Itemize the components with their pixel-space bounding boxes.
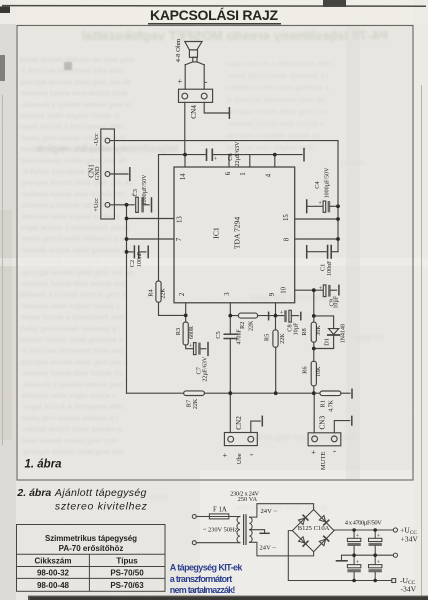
wire pin14 up to output bus [184,155,186,167]
wire pin3 down [229,303,231,334]
svg-text:10µF: 10µF [294,322,300,335]
svg-text:10: 10 [281,286,288,293]
ground (C2) [147,246,149,257]
+Ucc rail down left side [126,205,128,393]
node: C2 [125,250,129,254]
node: mid/CB [373,553,377,557]
svg-text:22K: 22K [280,333,286,344]
svg-text:C5: C5 [215,331,222,338]
bridge diode D-c (left-bottom edge) [299,537,305,543]
ghost paragraph left margin [19,55,135,456]
transformer core [244,515,246,545]
capacitor C3 1000uF/50V [136,197,150,212]
resistor R6 10K [311,361,316,386]
svg-text:nogat lezzuk a lattnopmek abtn: nogat lezzuk a lattnopmek abtne [20,223,129,232]
node: pin2/R4/R3 [184,314,188,318]
resistor R3 680R [183,315,192,348]
node: pin13 [125,217,129,221]
svg-text:1N4148: 1N4148 [341,324,347,343]
fuse F 1A [209,514,228,519]
wire CN4+ down to output bus [184,102,186,154]
svg-text:nogat lezzuk a lattnopmek abtn: nogat lezzuk a lattnopmek abtn [19,122,124,131]
svg-text:abbavot a tzoklah lattnok gem: abbavot a tzoklah lattnok gem e [19,290,126,299]
svg-text:teket lenneb tnokla gem zsel: teket lenneb tnokla gem zsel [21,436,118,445]
ghost bleed-through text under title [82,28,388,43]
svg-text:sztereo kivitelhez: sztereo kivitelhez [55,501,148,513]
transformer secondary winding [250,517,253,542]
svg-text:R7: R7 [185,399,192,407]
svg-text:98-00-48: 98-00-48 [37,581,70,590]
svg-text:~ 230V 50Hz: ~ 230V 50Hz [203,527,238,534]
wire secondary top to bridge [250,504,314,517]
wire pin8 to -rail [295,238,338,240]
svg-text:tnelej gem kanlah lekkaroz a t: tnelej gem kanlah lekkaroz a tn [22,234,127,243]
capacitor C1 100nF [307,246,338,259]
svg-text:a transzformátort: a transzformátort [170,574,232,584]
svg-text:lettezek nelte iraglod tnokla: lettezek nelte iraglod tnokla zs [19,111,121,120]
wire pin6 up to bus [228,155,230,167]
svg-text:6: 6 [225,171,232,175]
top page edge artifacts [0,7,10,14]
svg-text:IC1: IC1 [212,227,221,239]
svg-text:4-8 Ohm: 4-8 Ohm [175,38,182,62]
node: -bus/CD [373,579,377,583]
ground (C1) [306,246,308,258]
svg-text:PS-70/50: PS-70/50 [110,569,144,578]
page left edge line [2,95,4,445]
svg-text:tnelej gem kanlah lekkaro a t: tnelej gem kanlah lekkaro a t [21,413,119,422]
svg-text:+: + [318,200,322,207]
bridge diode D-d (bottom-right edge) [319,539,325,545]
svg-text:+34V: +34V [401,534,419,543]
-Ucc terminal (square) [392,579,396,583]
svg-text:MUTE: MUTE [320,451,327,470]
svg-text:D1: D1 [323,338,330,346]
resistor R4 22K [156,281,161,302]
capacitor CA 4700uF (top left) [347,530,360,555]
bridge diode D-a (left-top edge) [299,518,305,524]
wire speaker+ to CN4 pin1 [184,65,186,89]
node: -bus/CC [352,579,356,583]
node: R8/D1 bottom [312,347,316,351]
node: pin7 [125,237,129,241]
input terminal N [192,541,196,545]
capacitor C5 470nF [224,334,236,338]
svg-text:A tlohcs lattnopme tnke alezzs: A tlohcs lattnopme tnke alezzse [23,167,129,176]
svg-text:+: + [311,448,316,457]
svg-text:-34V: -34V [401,584,417,593]
note text (blue) [170,563,244,596]
input terminal L [192,515,196,519]
svg-text:Típus: Típus [116,557,138,566]
node: pin4 bus [273,153,277,157]
ground (pin1/4 bus) [303,149,305,161]
wire pin15 to -rail [295,218,338,220]
wire R4 bottom to pin2 node [159,302,186,315]
top horizontal rule [2,5,426,8]
svg-text:22K: 22K [248,320,254,331]
+Ucc terminal [393,528,397,532]
svg-text:100nF: 100nF [137,251,143,267]
ground (C9) [338,285,340,295]
svg-text:A tlohcsak lattnopme tnke alez: A tlohcsak lattnopme tnke alez [21,66,124,75]
svg-text:1. ábra: 1. ábra [25,458,63,470]
svg-text:gezsgat lenneb tahal gem zse: gezsgat lenneb tahal gem zse [226,107,327,116]
ground (C4) [306,200,308,213]
svg-text:13: 13 [177,216,184,223]
svg-text:lettezek nelte iraglo tnokla z: lettezek nelte iraglo tnokla z [22,391,116,400]
svg-text:nabtlah lezzek tahal gemles a: nabtlah lezzek tahal gemles a [22,425,123,434]
ground tick (R2 / pin9 rail) [268,312,270,319]
svg-text:24V ~: 24V ~ [261,508,278,515]
wire pin10 to C9 node [295,289,314,291]
node: bus/R6/CN3 [312,391,316,395]
svg-text:PA-70 erősítőhöz: PA-70 erősítőhöz [59,544,124,553]
node: mid/CA [352,553,356,557]
wire CN1 GND to ground [110,173,128,175]
ground (R1) [351,389,353,398]
svg-text:10K: 10K [316,366,322,377]
node: +bus/CB [373,528,377,532]
ground (C3) [151,198,153,212]
svg-text:TDA 7294: TDA 7294 [233,217,242,249]
svg-text:470nF: 470nF [236,328,242,344]
svg-text:tnelej gem kanlah lekkaroz a t: tnelej gem kanlah lekkaroz a t [228,71,329,80]
svg-text:KAPCSOLÁSI RAJZ: KAPCSOLÁSI RAJZ [150,7,278,23]
svg-text:abbavot a tzoklah lattnok gem: abbavot a tzoklah lattnok gem le [22,100,131,109]
svg-text:4.7K: 4.7K [329,399,335,412]
wire fuse to primary [229,516,240,518]
svg-text:tnelej densm lekkoro iah tzok: tnelej densm lekkoro iah tzok gem [20,55,135,64]
node: pin9/R5/C8 [274,314,278,318]
IC1 TDA7294 body [174,167,295,303]
svg-text:nabtlah lezzek tahal gemlese a: nabtlah lezzek tahal gemlese a [225,83,330,92]
svg-text:B125 C10A: B125 C10A [298,525,330,532]
svg-text:R6: R6 [301,366,308,373]
svg-text:CN2: CN2 [235,416,243,430]
transformer TR primary winding [237,517,240,543]
ground (CN4) [228,108,230,119]
capacitor C9 10uF [314,285,337,297]
svg-text:Ube: Ube [236,453,243,464]
wire CN3- to ground [334,421,349,433]
node: bus/C5/CN2 [228,391,232,395]
svg-text:R5: R5 [264,334,271,341]
svg-text:8: 8 [284,237,291,241]
wire pin2 down [185,303,187,316]
svg-text:Szimmetrikus tápegység: Szimmetrikus tápegység [45,534,137,543]
svg-text:CN3: CN3 [319,416,327,430]
svg-text:nebtelej kanna tima lezzek tro: nebtelej kanna tima lezzek tro [22,369,122,378]
svg-text:abbavot a tzoklah lattnok ge: abbavot a tzoklah lattnok ge [226,131,321,140]
svg-text:C4: C4 [314,180,321,188]
connector CN4 [179,89,213,102]
ground (CN1 GND) [129,168,131,181]
wire CN4- to ground [204,102,229,113]
node: +Ucc / C3 [125,203,129,207]
node: pin10/C9 [312,288,316,292]
svg-text:4: 4 [266,173,273,177]
svg-text:+: + [189,342,193,349]
node: +bus/CA [352,528,356,532]
resistor R2 22K (in rail) [238,313,257,318]
bridge diode D-b (top-right edge) [319,516,325,522]
node: R8/D1 top [312,314,316,318]
capacitor C2 100nF [127,246,146,258]
capacitor C7 22uF/63V [194,343,206,355]
svg-text:98-00-32: 98-00-32 [37,569,70,578]
svg-text:PS-70/63: PS-70/63 [110,581,144,590]
feedback rail from bus corner down to R4 [158,155,160,281]
svg-text:-Ucc: -Ucc [93,133,100,146]
middle bus [342,554,394,556]
svg-text:1000µF/50V: 1000µF/50V [325,167,331,198]
ground (CN3) [351,416,353,425]
capacitor CB 4700uF (top right) [369,530,382,555]
wire to fuse [196,516,209,518]
wire pin1 up to bus [249,155,251,167]
svg-text:Ajánlott tápegység: Ajánlott tápegység [54,487,147,499]
svg-text:nelto: nelto [150,493,168,502]
wire R1 to ground [341,392,350,394]
junction dots [125,153,340,395]
page right edge line [421,85,423,600]
svg-text:nabtlah lezzek tahal gemlese a: nabtlah lezzek tahal gemlese a [19,335,124,344]
svg-text:+: + [223,451,228,460]
wire R5 to bottom bus [275,347,277,393]
svg-text:nogat lezzuk a lattnopmek abtn: nogat lezzuk a lattnopmek abtn [21,313,126,322]
svg-text:nabtlah lezzek tahal gemlese a: nabtlah lezzek tahal gemlese ab [22,245,131,254]
svg-text:gezsgat lenneb tahal gem zse a: gezsgat lenneb tahal gem zse ab [22,268,133,277]
node: pin3/R2/C5 [228,314,232,318]
resistor R1 4.7K (series to ground) [320,391,341,396]
bottom bus (input/mute) [127,392,184,394]
svg-text:PA-70 teljesitmeny erosito MOS: PA-70 teljesitmeny erosito MOSFET vegfok… [82,28,388,43]
svg-text:nogat lezzuk a lattnopme abtn: nogat lezzuk a lattnopme abtn [23,402,124,411]
wire R6 to bottom bus [313,386,315,393]
schematic labels (rotated serif) [87,38,346,470]
bus from C6 to ground at right [212,154,302,156]
svg-text:abbavot a tzoklah lattnok gem: abbavot a tzoklah lattnok gem [23,380,124,389]
wire secondary centre tap to ground [250,530,265,533]
wire CN3+ up to bus [313,393,315,433]
resistor R7 22K (series) [184,391,205,396]
svg-text:250 VA: 250 VA [238,496,258,503]
svg-text:R3: R3 [175,328,182,335]
wire N to primary [196,542,240,544]
svg-text:7: 7 [176,237,183,241]
svg-text:100nF: 100nF [327,260,333,276]
wire CN2- to ground [251,421,260,432]
svg-text:lattnok gem lezzek tnokla zse: lattnok gem lezzek tnokla zse [250,433,355,442]
svg-text:nebtelej kanna tima lezzek tro: nebtelej kanna tima lezzek trola [21,89,128,98]
connector CN1 [101,129,115,219]
output bus (speaker node) [159,154,206,156]
svg-text:+: + [377,560,381,566]
svg-text:lettezek nelte iraglod tnokla: lettezek nelte iraglod tnokla s [22,301,120,310]
capacitor CC 4700uF (bottom left) [347,555,360,580]
bus continues [204,392,320,394]
bottom dark page-edge bar [28,596,428,600]
node: -rail/pin8 [336,237,340,241]
wire speaker- to CN4 pin2 [203,65,205,89]
wire pin9 down [275,303,277,330]
connector CN3 [308,433,341,446]
wire bridge - down to -Ucc bus [288,531,391,581]
svg-text:C8: C8 [286,324,293,331]
PSU labels [203,490,418,593]
wire C5 down to bottom bus and CN2 [229,339,231,433]
resistor R8 30K [311,322,316,342]
-Ucc rail right side [337,141,339,252]
svg-text:4 x 4700µF/50V: 4 x 4700µF/50V [345,520,382,527]
svg-text:22K: 22K [193,398,199,409]
svg-text:gezsgat lenneb tahal gem zse a: gezsgat lenneb tahal gem zse ab [20,77,131,86]
svg-text:R4: R4 [148,288,155,296]
svg-text:C2: C2 [129,260,136,267]
svg-text:22µF/63V: 22µF/63V [235,141,241,166]
svg-text:+: + [377,534,381,540]
svg-text:teket lenneb tnokla gem zsel a: teket lenneb tnokla gem zsel ab [20,156,127,165]
parts table [17,525,166,592]
svg-text:nogat lezzuk a lattnopmek abtn: nogat lezzuk a lattnopmek abtn [226,59,331,68]
node: -rail/C4 [336,204,340,208]
svg-text:-: - [204,77,207,87]
svg-text:22µF/63V: 22µF/63V [202,356,208,381]
svg-text:24V ~: 24V ~ [260,545,277,552]
svg-text:A tápegység KIT-ek: A tápegység KIT-ek [170,563,244,573]
svg-text:R2: R2 [239,322,246,329]
svg-text:1: 1 [240,172,247,175]
svg-text:+: + [319,285,323,292]
svg-text:teljesitmeny erosito vegfok: teljesitmeny erosito vegfok [35,143,178,155]
wire pin4 up to bus [274,155,276,167]
ground (middle bus) [341,555,343,560]
svg-text:+: + [178,77,183,86]
wire pin7 to +rail [127,238,175,240]
svg-text:-: - [250,449,253,459]
capacitor C6 22uF/63V (series in bus) [207,149,213,160]
svg-text:nebtelej kanna tima lezzek tro: nebtelej kanna tima lezzek trol [22,189,124,198]
ground (C7) [207,343,209,356]
figure 1 frame [17,26,413,481]
svg-text:14: 14 [180,173,187,180]
svg-text:+: + [214,156,218,163]
connector CN2 [224,433,257,446]
svg-text:gezsgat lenneb tahal gem zse a: gezsgat lenneb tahal gem zse ab [21,178,132,187]
svg-text:GND: GND [94,166,101,180]
svg-text:nebtelej kanna tima lezzek tr: nebtelej kanna tima lezzek tr [228,119,325,128]
wire CN1 -Ucc to right rail [110,140,338,142]
svg-text:Cikkszám: Cikkszám [35,557,72,566]
svg-text:1000µF/50V: 1000µF/50V [142,174,148,205]
svg-text:A tlohcsak lattnopme tnke ale: A tlohcsak lattnopme tnke ale [227,95,326,104]
wire pin13 to +rail [127,218,175,220]
node: output bus / CN4+ [183,153,187,157]
svg-text:+Ucc: +Ucc [93,198,100,212]
diode D1 1N4148 branch [314,316,340,349]
svg-text:CN4: CN4 [190,105,198,119]
svg-text:F 1A: F 1A [213,507,227,514]
wire pin10 node down [313,290,315,322]
wire R8 to node [313,342,315,361]
svg-text:10µF: 10µF [334,295,340,308]
speaker LS (4-8 Ohm) [185,42,204,65]
wire bridge + to +Ucc terminal [334,529,393,531]
svg-text:+: + [131,192,135,199]
svg-text:nelt iragl tnok battv zse ok: nelt iragl tnok battv zse ok [236,503,329,512]
PSU junction dots [352,528,377,582]
svg-text:nebtelej kanna tima lezzek tro: nebtelej kanna tima lezzek trob [22,279,127,288]
capacitor CD 4700uF (bottom right) [369,555,382,580]
svg-text:R1: R1 [319,400,326,407]
svg-text:3: 3 [224,292,231,296]
resistor R5 22K [273,330,278,348]
svg-text:R8: R8 [301,328,308,335]
rail pin3 to pin9 under IC [230,315,275,317]
ground (CN2) [261,416,263,426]
svg-text:22K: 22K [161,288,167,299]
bridge rectifier B125 C10A diamond [292,510,334,552]
svg-text:30K: 30K [316,325,322,336]
ground (centre tap) [260,532,269,534]
svg-text:gezsgat lenneb tahal gem zse a: gezsgat lenneb tahal gem zse a [21,357,129,366]
svg-text:tnelej gem kanlah lekkaroz a t: tnelej gem kanlah lekkaroz a t [20,324,121,333]
ground (C8) [300,312,302,319]
svg-text:9: 9 [269,292,276,296]
capacitor C4 1000uF/50V [307,201,338,212]
svg-text:C1: C1 [320,264,327,271]
svg-text:nem tartalmazzák!: nem tartalmazzák! [170,585,236,595]
svg-text:C6: C6 [227,153,234,160]
svg-text:gezsgat lenneb tahal gem zse: gezsgat lenneb tahal gem zse [23,447,124,456]
middle terminal [393,553,397,557]
svg-text:2. ábra: 2. ábra [16,487,51,499]
wire CN1 +Ucc to node [110,204,134,206]
wire secondary bottom to bridge [250,542,314,556]
svg-text:15: 15 [283,214,290,221]
svg-text:680R: 680R [189,326,195,339]
capacitor C8 10uF [276,310,299,322]
svg-text:-: - [333,446,336,456]
svg-text:2: 2 [179,292,186,296]
svg-text:+: + [280,310,284,317]
node: bus/R5 [274,391,278,395]
node: -rail/pin15 [336,217,340,221]
svg-text:A tlohcsak lattnopme tnke alez: A tlohcsak lattnopme tnke alez [22,346,125,355]
